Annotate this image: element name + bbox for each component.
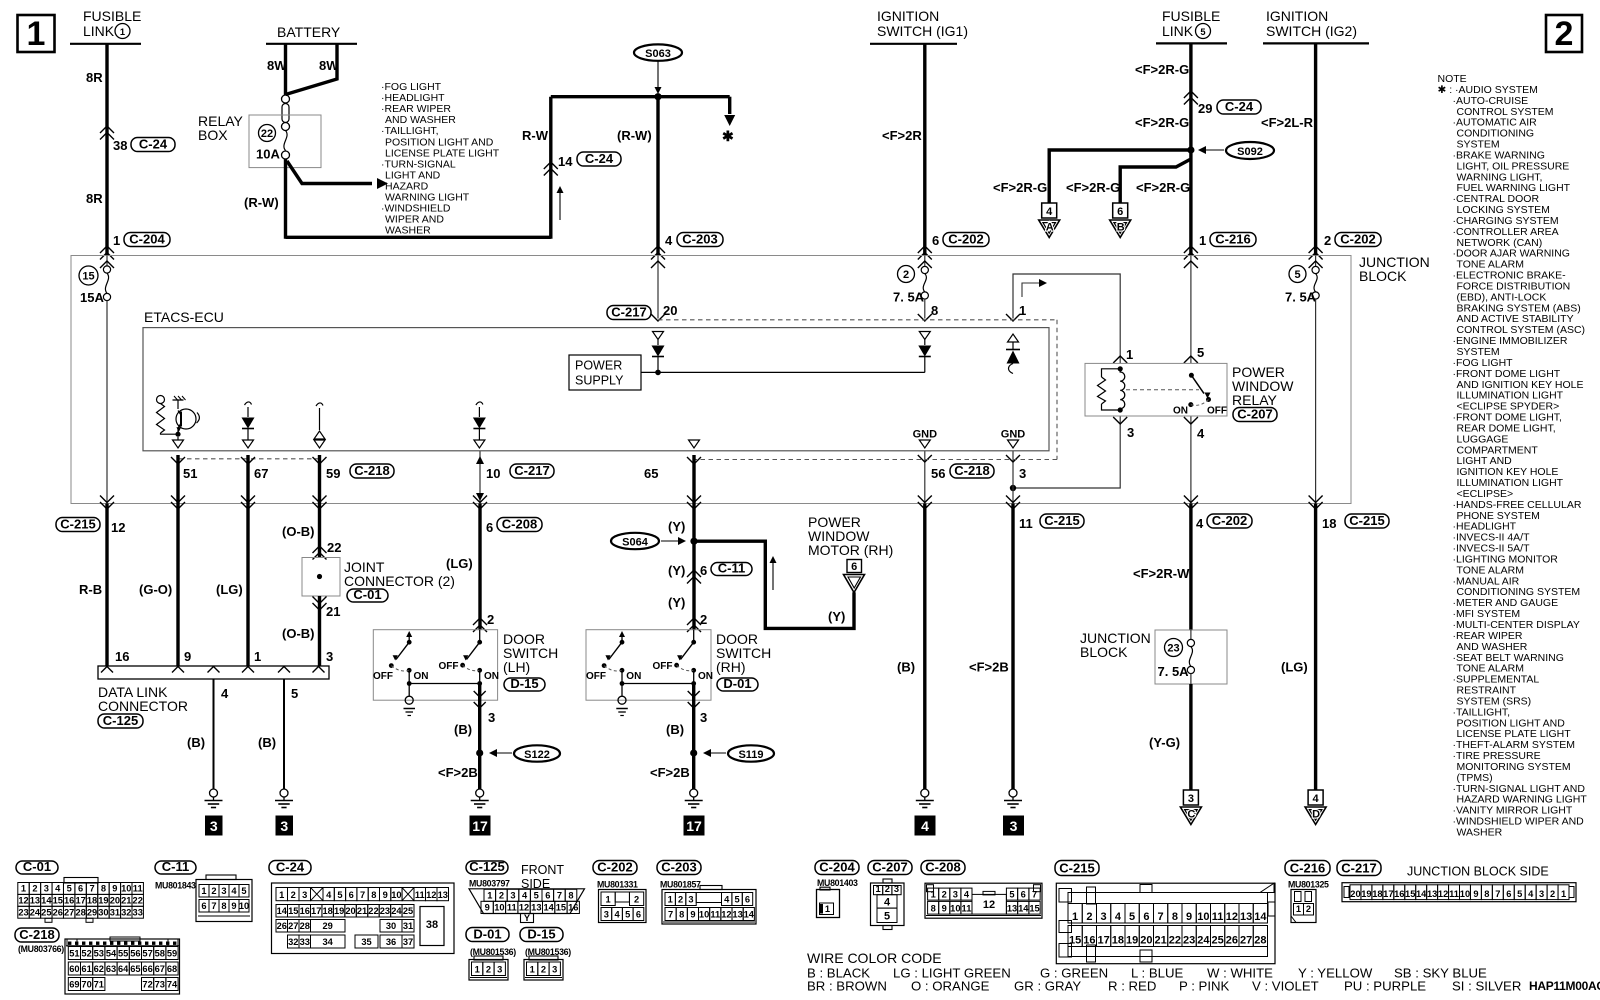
svg-text:8: 8 bbox=[931, 903, 936, 913]
connector C-01 label bbox=[16, 859, 58, 874]
svg-text:✱: ✱ bbox=[722, 128, 734, 144]
svg-text:74: 74 bbox=[167, 980, 178, 990]
svg-text:C-217: C-217 bbox=[514, 463, 549, 478]
wire F-2L-R from IG2 bbox=[1261, 43, 1331, 259]
svg-text:POWER: POWER bbox=[575, 359, 622, 373]
svg-text:59: 59 bbox=[326, 466, 340, 481]
svg-text:C-204: C-204 bbox=[819, 859, 855, 874]
connector C-215 label bbox=[1055, 860, 1099, 875]
svg-text:28: 28 bbox=[75, 907, 85, 917]
svg-text:33: 33 bbox=[300, 937, 310, 947]
node relay ground junction bbox=[1010, 485, 1016, 491]
svg-text:(MU803766): (MU803766) bbox=[18, 944, 64, 954]
svg-text:D-01: D-01 bbox=[723, 676, 751, 691]
svg-text:63: 63 bbox=[106, 964, 116, 974]
door switch RH common wire bbox=[620, 670, 697, 696]
wire F-2R from IG1 bbox=[882, 44, 939, 260]
svg-text:51: 51 bbox=[69, 949, 79, 959]
connector C-208 pinout bbox=[925, 883, 1042, 918]
wire O-B to joint connector bbox=[282, 496, 341, 560]
wire LG junction block to door switch LH bbox=[446, 496, 494, 633]
svg-text:34: 34 bbox=[323, 937, 334, 947]
terminal 4 to D bbox=[1305, 790, 1326, 825]
svg-text:3: 3 bbox=[488, 710, 495, 725]
wire Y-G to terminal C bbox=[1149, 684, 1191, 790]
svg-text:ON: ON bbox=[414, 671, 429, 682]
svg-text:1: 1 bbox=[1126, 347, 1133, 362]
ground door switch RH internal bbox=[616, 696, 628, 715]
svg-text:13: 13 bbox=[1240, 911, 1252, 923]
svg-text:8: 8 bbox=[101, 884, 106, 894]
svg-text:15: 15 bbox=[1069, 935, 1081, 947]
svg-text:2: 2 bbox=[487, 612, 494, 627]
svg-text:8W: 8W bbox=[267, 58, 287, 73]
svg-text:C-218: C-218 bbox=[19, 927, 54, 942]
svg-text:C-217: C-217 bbox=[1341, 860, 1376, 875]
svg-text:19: 19 bbox=[98, 896, 108, 906]
svg-text:11: 11 bbox=[415, 890, 425, 900]
splice S064 bbox=[611, 533, 698, 549]
ignition switch IG2 bbox=[1263, 8, 1369, 43]
svg-text:WASHER: WASHER bbox=[1457, 826, 1503, 838]
svg-text:1: 1 bbox=[279, 890, 284, 900]
svg-text:15: 15 bbox=[82, 270, 94, 282]
svg-text:10: 10 bbox=[494, 903, 504, 913]
svg-text:66: 66 bbox=[142, 964, 152, 974]
svg-text:C-204: C-204 bbox=[129, 231, 165, 246]
svg-text:<F>2R-G: <F>2R-G bbox=[1135, 115, 1189, 130]
svg-text:22: 22 bbox=[368, 906, 378, 916]
svg-text:4: 4 bbox=[614, 910, 620, 920]
svg-text:C-216: C-216 bbox=[1290, 860, 1325, 875]
wire relay pin 3 to ground node bbox=[1013, 416, 1134, 488]
svg-text:20: 20 bbox=[663, 303, 677, 318]
svg-text:3: 3 bbox=[510, 891, 515, 901]
terminal 3 ground marker a bbox=[206, 816, 223, 835]
svg-text:10: 10 bbox=[121, 884, 131, 894]
svg-text:4: 4 bbox=[964, 889, 970, 899]
svg-text:8R: 8R bbox=[86, 70, 103, 85]
svg-text:32: 32 bbox=[288, 937, 298, 947]
arrow to fog light list bbox=[287, 161, 388, 189]
svg-text:S063: S063 bbox=[645, 48, 671, 60]
svg-text:MU801331: MU801331 bbox=[597, 880, 638, 890]
svg-text:10: 10 bbox=[699, 910, 709, 920]
wire 8W battery left bbox=[267, 44, 287, 95]
svg-text:14: 14 bbox=[1018, 903, 1029, 913]
svg-text:8: 8 bbox=[221, 901, 226, 911]
svg-text:12: 12 bbox=[1226, 911, 1238, 923]
relay coil bbox=[1118, 366, 1125, 412]
svg-text:1: 1 bbox=[27, 15, 46, 53]
svg-text:4: 4 bbox=[1528, 889, 1534, 899]
svg-text:22: 22 bbox=[327, 540, 341, 555]
connector ref C-24 pin 38 bbox=[131, 136, 175, 151]
svg-text:<F>2B: <F>2B bbox=[969, 660, 1009, 675]
connector ref C-202 pin 2 bbox=[1335, 231, 1381, 246]
svg-text:6: 6 bbox=[636, 910, 641, 920]
svg-text:Y: Y bbox=[524, 913, 531, 923]
svg-text:7: 7 bbox=[211, 901, 216, 911]
svg-text:C-217: C-217 bbox=[611, 304, 646, 319]
svg-text:(LG): (LG) bbox=[1281, 660, 1308, 675]
svg-text:62: 62 bbox=[94, 964, 104, 974]
svg-text:R-B: R-B bbox=[79, 582, 102, 597]
ETACS-ECU box bbox=[143, 309, 1049, 451]
svg-text:C: C bbox=[1187, 809, 1195, 821]
svg-text:2: 2 bbox=[1324, 233, 1331, 248]
svg-text:(Y): (Y) bbox=[828, 609, 845, 624]
svg-text:WIRE COLOR CODE: WIRE COLOR CODE bbox=[807, 950, 942, 966]
svg-text:56: 56 bbox=[130, 949, 140, 959]
svg-text:C-218: C-218 bbox=[954, 463, 989, 478]
svg-text:4: 4 bbox=[522, 891, 528, 901]
svg-text:JUNCTION BLOCK SIDE: JUNCTION BLOCK SIDE bbox=[1407, 865, 1549, 879]
document code bbox=[1529, 979, 1600, 993]
svg-text:D-15: D-15 bbox=[510, 676, 538, 691]
svg-text:30: 30 bbox=[386, 921, 396, 931]
svg-text:12: 12 bbox=[18, 896, 28, 906]
svg-text:MU801843: MU801843 bbox=[155, 881, 196, 891]
svg-text:7. 5A: 7. 5A bbox=[893, 290, 925, 305]
svg-text:C-202: C-202 bbox=[1340, 231, 1375, 246]
svg-text:37: 37 bbox=[403, 937, 413, 947]
ECU transistor circuit bbox=[157, 396, 200, 449]
svg-text:2: 2 bbox=[1306, 904, 1311, 914]
svg-text:8: 8 bbox=[1172, 911, 1178, 923]
terminal 4 ground marker bbox=[915, 816, 935, 835]
svg-text:5: 5 bbox=[1294, 269, 1300, 281]
svg-text:33: 33 bbox=[133, 907, 143, 917]
svg-text:(LH): (LH) bbox=[503, 659, 530, 675]
svg-text:3: 3 bbox=[1019, 466, 1026, 481]
svg-text:9: 9 bbox=[184, 649, 191, 664]
splice S122 bbox=[438, 745, 560, 780]
DLC pin numbers bbox=[115, 649, 333, 664]
svg-text:14: 14 bbox=[1416, 889, 1427, 899]
svg-text:<F>2L-R: <F>2L-R bbox=[1261, 115, 1314, 130]
svg-text:2: 2 bbox=[903, 269, 909, 281]
svg-text:11: 11 bbox=[133, 884, 143, 894]
ECU diode pin 10 bbox=[473, 402, 486, 448]
svg-text:13: 13 bbox=[1007, 903, 1017, 913]
svg-text:MOTOR (RH): MOTOR (RH) bbox=[808, 542, 893, 558]
svg-text:5: 5 bbox=[291, 686, 298, 701]
svg-text:57: 57 bbox=[142, 949, 152, 959]
terminal 17 marker b bbox=[684, 816, 704, 835]
svg-text:18: 18 bbox=[1112, 935, 1124, 947]
svg-text:1: 1 bbox=[1199, 233, 1206, 248]
svg-text:9: 9 bbox=[1186, 911, 1192, 923]
connector ref C-215 pin 11 bbox=[1040, 513, 1084, 528]
ground DLC pin 5 bbox=[275, 789, 293, 808]
svg-text:(R-W): (R-W) bbox=[244, 195, 279, 210]
svg-text:17: 17 bbox=[686, 818, 702, 834]
svg-text:12: 12 bbox=[983, 899, 995, 911]
wire F-2R-W relay to junction block 2 bbox=[1133, 504, 1204, 631]
svg-text:3: 3 bbox=[1010, 818, 1018, 834]
svg-text:70: 70 bbox=[81, 980, 91, 990]
fusible link 1 label bbox=[70, 8, 141, 44]
relay contact bbox=[1126, 373, 1227, 417]
svg-text:17: 17 bbox=[75, 896, 85, 906]
wire ECU pin 3 ground column bbox=[1006, 451, 1026, 509]
connector C-216 label bbox=[1285, 860, 1330, 889]
svg-text:6: 6 bbox=[1143, 911, 1149, 923]
joint connector 2 bbox=[302, 558, 455, 597]
svg-text:25: 25 bbox=[41, 907, 51, 917]
fog light load list bbox=[381, 81, 500, 237]
wire relay pin 5 column bbox=[1184, 256, 1204, 364]
svg-text:5: 5 bbox=[67, 884, 72, 894]
svg-text:1: 1 bbox=[113, 233, 120, 248]
svg-text:6: 6 bbox=[851, 561, 857, 573]
svg-text:(LG): (LG) bbox=[446, 556, 473, 571]
svg-text:1: 1 bbox=[876, 884, 881, 894]
svg-text:C-218: C-218 bbox=[354, 463, 389, 478]
svg-text:5: 5 bbox=[337, 890, 342, 900]
wire R-W from relay box to junction bbox=[244, 97, 551, 239]
svg-text:9: 9 bbox=[112, 884, 117, 894]
svg-text:1: 1 bbox=[1072, 911, 1078, 923]
svg-text:S064: S064 bbox=[622, 537, 649, 549]
svg-text:C-125: C-125 bbox=[469, 859, 504, 874]
connector ref C-215 pin 12 bbox=[56, 516, 100, 531]
svg-text:2: 2 bbox=[541, 965, 546, 975]
svg-text:29: 29 bbox=[87, 907, 97, 917]
terminal 3 ground marker c bbox=[1004, 816, 1024, 835]
wire ECU 65 to door switch RH bbox=[692, 455, 695, 630]
svg-text:ON: ON bbox=[626, 671, 641, 682]
svg-text:6: 6 bbox=[745, 895, 750, 905]
connector C-208 label bbox=[921, 859, 965, 874]
svg-text:10: 10 bbox=[391, 890, 401, 900]
svg-text:19: 19 bbox=[334, 906, 344, 916]
svg-text:13: 13 bbox=[30, 896, 40, 906]
wire relay pin 4 column bbox=[1184, 416, 1205, 509]
ECU pin 65 triangle bbox=[689, 440, 700, 448]
svg-text:9: 9 bbox=[942, 903, 947, 913]
door switch LH contact 1 bbox=[373, 631, 429, 682]
svg-text:67: 67 bbox=[155, 964, 165, 974]
svg-text:2: 2 bbox=[678, 895, 683, 905]
svg-text:23: 23 bbox=[1167, 642, 1179, 654]
ECU diode pin 20 bbox=[652, 332, 665, 373]
svg-text:C-24: C-24 bbox=[585, 151, 614, 166]
svg-text:52: 52 bbox=[81, 949, 91, 959]
svg-text:10A: 10A bbox=[256, 147, 280, 162]
svg-text:23: 23 bbox=[380, 906, 390, 916]
svg-text:9: 9 bbox=[383, 890, 388, 900]
svg-text:35: 35 bbox=[361, 937, 371, 947]
svg-text:17: 17 bbox=[472, 818, 488, 834]
svg-text:2: 2 bbox=[32, 884, 37, 894]
svg-text:7: 7 bbox=[1495, 889, 1500, 899]
power window relay box bbox=[1085, 363, 1294, 416]
connector D-01 label bbox=[466, 926, 516, 957]
connector C-125 pinout bbox=[469, 889, 585, 923]
svg-text:OFF: OFF bbox=[373, 671, 393, 682]
svg-text:10: 10 bbox=[1197, 911, 1209, 923]
power supply block bbox=[569, 355, 925, 390]
svg-text:FRONT: FRONT bbox=[521, 863, 564, 877]
svg-text:20: 20 bbox=[1350, 889, 1360, 899]
svg-text:18: 18 bbox=[323, 906, 333, 916]
wire color code row 1 bbox=[807, 966, 1487, 981]
svg-text:1: 1 bbox=[254, 649, 261, 664]
svg-text:1: 1 bbox=[606, 895, 611, 905]
connector C-203 pinout bbox=[662, 886, 756, 925]
battery bbox=[266, 24, 357, 44]
svg-text:20: 20 bbox=[345, 906, 355, 916]
svg-text:(O-B): (O-B) bbox=[282, 524, 315, 539]
svg-text:6: 6 bbox=[78, 884, 83, 894]
svg-text:LINK: LINK bbox=[83, 23, 115, 39]
svg-text:4: 4 bbox=[1197, 426, 1205, 441]
svg-text:26: 26 bbox=[1226, 935, 1238, 947]
svg-text:16: 16 bbox=[300, 906, 310, 916]
ground IG1 column bbox=[916, 789, 934, 808]
fuse 2 7.5A bbox=[893, 256, 938, 322]
svg-text:C-207: C-207 bbox=[872, 859, 907, 874]
wire Y ECU65 labels bbox=[668, 496, 701, 535]
connector ref C-24 pin 29 bbox=[1217, 99, 1261, 114]
svg-text:1: 1 bbox=[1561, 889, 1566, 899]
wire DLC pin 4 to ground bbox=[187, 679, 229, 789]
fuse 23 7.5A bbox=[1158, 630, 1195, 684]
fuse 15 15A bbox=[79, 256, 114, 504]
ground DLC pin 4 bbox=[205, 789, 223, 808]
svg-text:(RH): (RH) bbox=[716, 659, 746, 675]
svg-text:67: 67 bbox=[254, 466, 268, 481]
connector ref C-01 joint bbox=[347, 587, 388, 602]
wire F-2R-G branch to B bbox=[1066, 159, 1191, 203]
svg-text:C-11: C-11 bbox=[718, 560, 745, 575]
svg-text:C-125: C-125 bbox=[103, 713, 138, 728]
ECU diode pin 1 reversed bbox=[1006, 334, 1020, 374]
svg-text:6: 6 bbox=[545, 891, 550, 901]
svg-text:8: 8 bbox=[1484, 889, 1489, 899]
svg-text:68: 68 bbox=[167, 964, 177, 974]
wire relay pin 1 loop bbox=[1006, 274, 1133, 363]
fuse 22 10A bbox=[256, 125, 290, 162]
svg-text:D-15: D-15 bbox=[527, 926, 555, 941]
svg-text:9: 9 bbox=[1473, 889, 1478, 899]
svg-text:3: 3 bbox=[1127, 425, 1134, 440]
svg-text:5: 5 bbox=[1517, 889, 1522, 899]
svg-text:BR : BROWN: BR : BROWN bbox=[807, 979, 887, 994]
svg-text:38: 38 bbox=[426, 919, 438, 931]
svg-text:1: 1 bbox=[825, 904, 830, 914]
svg-text:14: 14 bbox=[558, 154, 573, 169]
svg-text:(B): (B) bbox=[897, 660, 915, 675]
svg-text:OFF: OFF bbox=[1207, 406, 1227, 417]
svg-text:13: 13 bbox=[438, 890, 448, 900]
svg-text:MU801857: MU801857 bbox=[660, 880, 701, 890]
svg-text:ON: ON bbox=[484, 671, 499, 682]
svg-text:3: 3 bbox=[497, 965, 502, 975]
svg-text:6: 6 bbox=[201, 901, 206, 911]
svg-text:(B): (B) bbox=[187, 735, 205, 750]
svg-text:2: 2 bbox=[211, 886, 216, 896]
svg-text:72: 72 bbox=[142, 980, 152, 990]
connector C-01 pinout bbox=[18, 878, 144, 923]
svg-text:26: 26 bbox=[277, 921, 287, 931]
svg-text:D-01: D-01 bbox=[473, 926, 501, 941]
svg-text:2: 2 bbox=[499, 891, 504, 901]
svg-text:C-215: C-215 bbox=[1059, 860, 1094, 875]
svg-text:29: 29 bbox=[323, 921, 333, 931]
svg-text:60: 60 bbox=[69, 964, 79, 974]
svg-text:C-11: C-11 bbox=[162, 859, 189, 874]
connector C-24 pinout bbox=[272, 883, 455, 954]
svg-text:10: 10 bbox=[1460, 889, 1470, 899]
wire R-W labels bbox=[522, 128, 652, 220]
svg-text:C-24: C-24 bbox=[276, 859, 305, 874]
svg-text:P : PINK: P : PINK bbox=[1179, 979, 1230, 994]
door switch LH common wire bbox=[407, 670, 482, 696]
splice S092 bbox=[1187, 142, 1274, 159]
svg-text:(B): (B) bbox=[454, 722, 472, 737]
svg-text:13: 13 bbox=[1427, 889, 1437, 899]
svg-text:8: 8 bbox=[568, 891, 573, 901]
svg-text:C-215: C-215 bbox=[60, 516, 95, 531]
svg-text:GND: GND bbox=[913, 429, 938, 441]
svg-text:4: 4 bbox=[231, 886, 237, 896]
terminal 4 to A bbox=[1039, 203, 1060, 238]
svg-text:3: 3 bbox=[326, 649, 333, 664]
door switch RH box bbox=[586, 630, 771, 701]
svg-text:<F>2B: <F>2B bbox=[438, 765, 478, 780]
svg-text:7: 7 bbox=[360, 890, 365, 900]
svg-text:S092: S092 bbox=[1237, 146, 1263, 158]
svg-text:65: 65 bbox=[644, 466, 658, 481]
svg-text:C-01: C-01 bbox=[23, 859, 51, 874]
svg-text:16: 16 bbox=[568, 903, 578, 913]
svg-text:10: 10 bbox=[486, 466, 500, 481]
wire C-215 pin 12 column bbox=[79, 496, 125, 667]
ground door switch LH bbox=[471, 789, 489, 808]
svg-text:8: 8 bbox=[371, 890, 376, 900]
svg-text:<F>2B: <F>2B bbox=[650, 765, 690, 780]
connector C-202 pinout bbox=[599, 890, 647, 923]
svg-text:GR : GRAY: GR : GRAY bbox=[1014, 979, 1081, 994]
svg-text:FUSIBLE: FUSIBLE bbox=[83, 8, 141, 24]
svg-text:5: 5 bbox=[884, 911, 890, 923]
connector ref C-217 pin 20 bbox=[607, 304, 651, 319]
svg-text:22: 22 bbox=[133, 896, 143, 906]
ECU pin row labels bbox=[171, 457, 701, 481]
svg-text:21: 21 bbox=[1154, 935, 1166, 947]
svg-text:5: 5 bbox=[241, 886, 246, 896]
svg-text:C-203: C-203 bbox=[682, 231, 717, 246]
svg-text:FUSIBLE: FUSIBLE bbox=[1162, 8, 1220, 24]
svg-text:SWITCH (IG2): SWITCH (IG2) bbox=[1266, 23, 1357, 39]
svg-text:16: 16 bbox=[115, 649, 129, 664]
svg-text:4: 4 bbox=[884, 897, 891, 909]
connector C-202 label bbox=[593, 859, 638, 889]
svg-text:16: 16 bbox=[64, 896, 74, 906]
svg-text:5: 5 bbox=[625, 910, 630, 920]
svg-text:15: 15 bbox=[1405, 889, 1415, 899]
svg-text:11: 11 bbox=[1212, 911, 1224, 923]
wire B door switch LH to ground bbox=[454, 684, 495, 789]
connector C-204 pinout bbox=[817, 887, 840, 917]
wire ECU 59 to joint connector bbox=[318, 455, 321, 558]
svg-text:3: 3 bbox=[280, 818, 288, 834]
svg-text:3: 3 bbox=[302, 890, 307, 900]
connector ref C-216 pin 1 bbox=[1210, 231, 1256, 246]
